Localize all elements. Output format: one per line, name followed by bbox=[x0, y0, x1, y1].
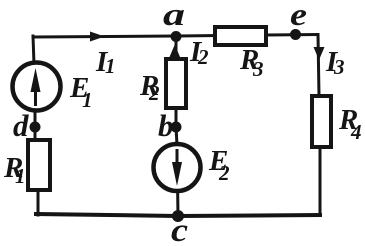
arrow I3 (current arrow on right branch, pointing down) bbox=[314, 47, 325, 60]
source E1 (circle with up arrow) bbox=[13, 63, 61, 111]
arrow I1 (current arrow on top wire, pointing right) bbox=[90, 32, 105, 42]
node a (junction dot) bbox=[171, 31, 182, 42]
resistor R1 bbox=[28, 140, 50, 190]
svg-text:1: 1 bbox=[82, 88, 93, 112]
label R2 bbox=[139, 70, 160, 105]
label I1 bbox=[95, 46, 116, 78]
source E2 (circle with down arrow) bbox=[154, 144, 201, 191]
svg-text:4: 4 bbox=[350, 120, 362, 144]
svg-text:b: b bbox=[158, 108, 174, 143]
node e (junction dot) bbox=[290, 29, 301, 40]
label E1 bbox=[69, 72, 93, 112]
node d (junction dot) bbox=[30, 122, 41, 133]
wire right branch (top corner down through R4 to bottom-right corner) bbox=[318, 35, 320, 216]
svg-text:c: c bbox=[171, 213, 188, 246]
resistor R4 bbox=[312, 96, 331, 147]
svg-text:a: a bbox=[163, 0, 185, 32]
svg-text:1: 1 bbox=[15, 164, 26, 188]
svg-text:e: e bbox=[290, 0, 307, 32]
wire middle branch (node a down through R2, b, E2 to node c) bbox=[176, 36, 178, 216]
arrow I2 (current arrow on middle branch, pointing up to node a) bbox=[170, 45, 181, 58]
wire top (left corner to node a to right corner) bbox=[33, 35, 318, 38]
svg-text:3: 3 bbox=[333, 55, 345, 79]
wire bottom (bottom-left corner through node c to bottom-right corner) bbox=[36, 214, 320, 216]
node c (junction dot) bbox=[172, 210, 184, 222]
wire left branch (top-left corner down through E1, d, R1 to bottom wire) bbox=[33, 36, 38, 215]
label R3 bbox=[239, 44, 264, 81]
svg-text:d: d bbox=[13, 108, 29, 143]
label I3 bbox=[325, 46, 345, 79]
svg-text:2: 2 bbox=[218, 161, 230, 185]
resistor R2 bbox=[166, 59, 186, 108]
svg-text:2: 2 bbox=[148, 81, 160, 105]
label R4 bbox=[338, 104, 362, 144]
resistor R3 bbox=[215, 27, 266, 45]
svg-text:1: 1 bbox=[105, 54, 116, 78]
svg-text:2: 2 bbox=[197, 45, 209, 69]
label I2 bbox=[189, 36, 209, 69]
label E2 bbox=[208, 145, 230, 185]
svg-text:3: 3 bbox=[252, 57, 264, 81]
label R1 bbox=[3, 152, 26, 188]
node b (junction dot) bbox=[171, 122, 182, 133]
